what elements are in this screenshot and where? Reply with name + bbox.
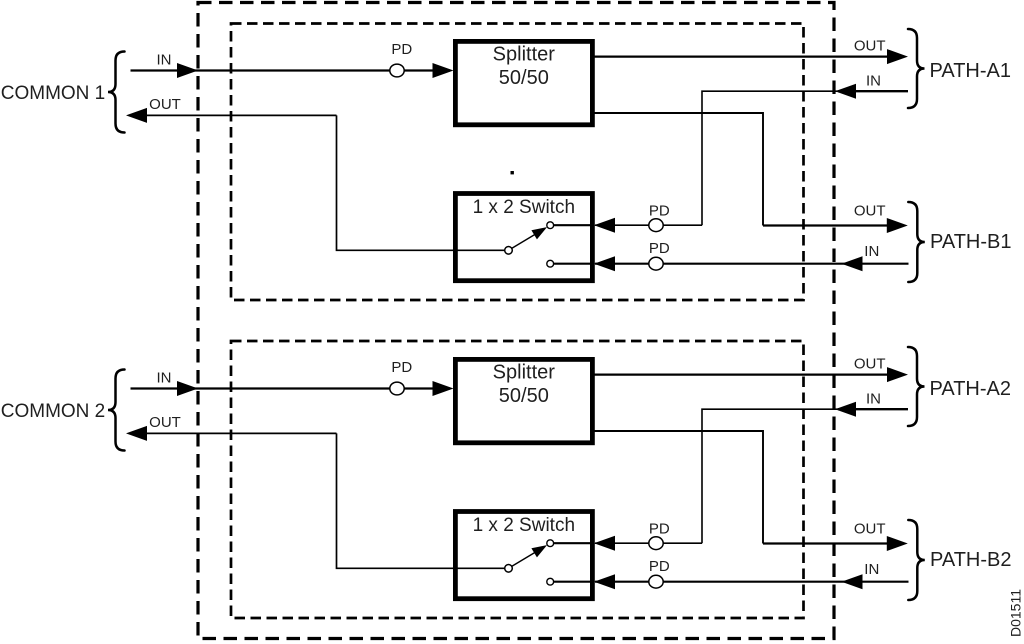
- wire switch common return (vertical drop to 1x2 switch pole) circuit 1: [337, 115, 505, 250]
- photodiode PD on PATH-B1 IN: [649, 257, 663, 270]
- wire PATH-B1 OUT: [763, 219, 906, 233]
- svg-text:COMMON 2: COMMON 2: [1, 401, 106, 422]
- svg-text:PD: PD: [649, 558, 670, 575]
- brace COMMON 2: [108, 370, 125, 451]
- stray dot mark: [511, 171, 514, 174]
- wire splitter output A to PATH-A1 OUT: [594, 50, 907, 64]
- brace PATH-B2: [908, 520, 925, 600]
- svg-text:OUT: OUT: [149, 414, 181, 431]
- wire COMMON 2 IN (with entry arrows): [131, 382, 453, 396]
- brace PATH-A2: [908, 347, 925, 426]
- wire PATH-B2 IN (into switch throw 2): [595, 575, 909, 589]
- wire COMMON 1 OUT: [128, 109, 337, 123]
- photodiode PD on throw 1 feed circuit 2: [649, 537, 663, 550]
- brace PATH-B1: [908, 202, 925, 282]
- svg-text:PD: PD: [649, 520, 670, 537]
- svg-text:Splitter: Splitter: [493, 362, 556, 384]
- wire COMMON 2 OUT: [128, 427, 337, 441]
- svg-text:IN: IN: [866, 390, 881, 407]
- switch throw 1 node circuit 2: [547, 540, 593, 547]
- photodiode PD on PATH-B2 IN: [649, 575, 663, 588]
- switch throw 2 node circuit 1: [547, 260, 593, 267]
- wire switch common return (vertical drop to 1x2 switch pole) circuit 2: [337, 433, 505, 568]
- wire PATH-A2 IN (drops to switch throw 1): [702, 402, 908, 543]
- switch pole node circuit 1: [505, 247, 513, 255]
- brace COMMON 1: [108, 52, 125, 133]
- splitter box (Splitter 50/50) circuit 1: [455, 41, 592, 124]
- switch wiper arm (throw arrow) circuit 2: [512, 546, 546, 566]
- svg-text:OUT: OUT: [854, 355, 886, 372]
- svg-text:IN: IN: [866, 72, 881, 89]
- svg-text:PATH-B1: PATH-B1: [930, 231, 1012, 253]
- outer dashed enclosure (module boundary): [198, 3, 834, 639]
- wire PATH-B2 OUT: [763, 537, 906, 551]
- svg-text:D01511: D01511: [1008, 589, 1024, 637]
- wire splitter output A to PATH-A2 OUT: [594, 368, 907, 382]
- switch throw 1 node circuit 1: [547, 222, 593, 229]
- svg-text:PD: PD: [649, 240, 670, 257]
- photodiode PD on COMMON 2 IN: [390, 382, 404, 395]
- svg-text:OUT: OUT: [854, 521, 886, 538]
- splitter box (Splitter 50/50) circuit 2: [455, 359, 592, 442]
- 1x2 switch box circuit 2: [455, 512, 592, 599]
- svg-text:50/50: 50/50: [499, 67, 549, 89]
- svg-text:PATH-B2: PATH-B2: [930, 549, 1012, 571]
- wire PATH-B1 IN (into switch throw 2): [595, 257, 909, 271]
- 1x2 switch box circuit 1: [455, 194, 592, 281]
- svg-text:IN: IN: [864, 243, 879, 260]
- inner dashed boundary circuit 2: [231, 341, 804, 618]
- svg-text:IN: IN: [157, 51, 172, 68]
- svg-text:OUT: OUT: [854, 203, 886, 220]
- svg-text:PD: PD: [391, 41, 412, 58]
- wire throw 1 feed (PATH-A1 IN into switch): [595, 218, 702, 232]
- wire PATH-A1 IN (drops to switch throw 1): [702, 84, 908, 225]
- svg-text:IN: IN: [157, 369, 172, 386]
- svg-text:Splitter: Splitter: [493, 44, 556, 66]
- svg-text:OUT: OUT: [854, 37, 886, 54]
- photodiode PD on throw 1 feed circuit 1: [649, 219, 663, 232]
- svg-text:PATH-A1: PATH-A1: [930, 60, 1012, 82]
- svg-text:COMMON 1: COMMON 1: [1, 83, 106, 104]
- svg-text:PATH-A2: PATH-A2: [930, 378, 1012, 400]
- photodiode PD on COMMON 1 IN: [390, 64, 404, 77]
- svg-text:PD: PD: [649, 202, 670, 219]
- switch wiper arm (throw arrow) circuit 1: [512, 228, 546, 248]
- svg-text:50/50: 50/50: [499, 385, 549, 407]
- svg-text:IN: IN: [864, 561, 879, 578]
- wire throw 1 feed (PATH-A2 IN into switch): [595, 536, 702, 550]
- switch throw 2 node circuit 2: [547, 578, 593, 585]
- inner dashed boundary circuit 1: [231, 24, 804, 301]
- wire COMMON 1 IN (with entry arrows): [131, 64, 453, 78]
- wire splitter output B (down to PATH-B2 OUT): [594, 431, 763, 544]
- wire splitter output B (down to PATH-B1 OUT): [594, 113, 763, 226]
- svg-text:PD: PD: [391, 359, 412, 376]
- svg-text:1 x 2 Switch: 1 x 2 Switch: [473, 515, 575, 536]
- switch pole node circuit 2: [505, 565, 513, 573]
- svg-text:OUT: OUT: [149, 96, 181, 113]
- brace PATH-A1: [908, 29, 925, 108]
- svg-text:1 x 2 Switch: 1 x 2 Switch: [473, 197, 575, 218]
